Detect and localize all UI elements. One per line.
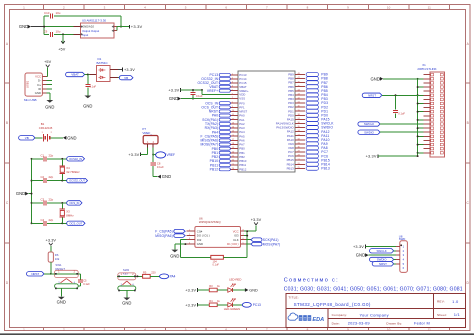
svg-text:Sheet:: Sheet: <box>437 313 447 317</box>
svg-text:8MHz: 8MHz <box>66 213 74 217</box>
svg-text:GND: GND <box>19 24 28 29</box>
svg-text:PB13: PB13 <box>287 166 294 170</box>
svg-text:GND: GND <box>35 91 41 95</box>
svg-text:C9: C9 <box>44 30 48 34</box>
svg-text:10k: 10k <box>55 257 60 261</box>
svg-text:C2: C2 <box>41 175 45 179</box>
svg-text:GND: GND <box>16 191 25 196</box>
svg-text:CLK: CLK <box>233 238 239 242</box>
svg-text:PA4: PA4 <box>170 275 176 279</box>
svg-text:C4: C4 <box>41 218 45 222</box>
svg-text:Company:: Company: <box>332 313 348 317</box>
svg-text:+3.3V: +3.3V <box>185 303 196 307</box>
svg-text:22p: 22p <box>49 197 54 201</box>
svg-text:+3.3V: +3.3V <box>124 68 135 72</box>
svg-text:VBAT: VBAT <box>71 73 79 77</box>
svg-text:GND: GND <box>122 301 131 306</box>
svg-text:10u: 10u <box>56 30 61 34</box>
svg-text:VCC: VCC <box>233 229 239 233</box>
svg-text:MOSI(PA7): MOSI(PA7) <box>263 242 281 246</box>
svg-text:GND: GND <box>356 253 365 258</box>
svg-text:C031; G030; G031; G041; G050;: C031; G030; G031; G041; G050; G051; G061… <box>284 286 463 292</box>
svg-text:CR1220-B: CR1220-B <box>39 126 53 130</box>
svg-text:U5 AMS1117-3.30: U5 AMS1117-3.30 <box>82 18 106 22</box>
svg-text:R5: R5 <box>143 270 147 274</box>
svg-text:B: B <box>467 121 469 125</box>
svg-text:+3.3V: +3.3V <box>131 24 143 29</box>
svg-text:0.1uF: 0.1uF <box>83 282 90 286</box>
svg-text:Output Output: Output Output <box>82 29 99 33</box>
svg-text:Input: Input <box>82 33 88 37</box>
svg-text:GND: GND <box>67 135 76 140</box>
svg-text:C10: C10 <box>44 11 50 15</box>
svg-text:0.1uF: 0.1uF <box>398 112 405 116</box>
svg-text:Date:: Date: <box>332 321 340 325</box>
svg-text:10: 10 <box>387 5 391 9</box>
svg-text:REV:: REV: <box>437 300 445 304</box>
svg-text:GND/ADJ: GND/ADJ <box>82 25 94 29</box>
svg-text:GND: GND <box>249 289 258 293</box>
svg-text:PB12: PB12 <box>210 167 219 171</box>
svg-text:+3.3V: +3.3V <box>46 238 57 242</box>
svg-text:+3.3V: +3.3V <box>251 218 262 222</box>
svg-text:Совместимо с:: Совместимо с: <box>284 278 339 284</box>
svg-text:R4: R4 <box>209 299 213 303</box>
svg-text:20PIN-STLINK: 20PIN-STLINK <box>417 67 436 71</box>
svg-text:GND: GND <box>83 103 92 108</box>
svg-text:F_CS(PA5): F_CS(PA5) <box>155 229 173 233</box>
svg-text:SWCLK: SWCLK <box>376 249 386 253</box>
svg-text:B: B <box>6 121 8 125</box>
svg-text:10u: 10u <box>56 11 61 15</box>
svg-text:22p: 22p <box>49 175 54 179</box>
svg-text:GND: GND <box>57 299 66 304</box>
svg-text:NRST: NRST <box>368 93 376 97</box>
svg-text:220: 220 <box>151 270 156 274</box>
svg-text:DI ( IO0 ): DI ( IO0 ) <box>227 242 239 246</box>
svg-text:OCS32_IN: OCS32_IN <box>69 157 82 161</box>
svg-text:W25Q32JVSSIQ: W25Q32JVSSIQ <box>199 220 221 224</box>
svg-text:VREF_: VREF_ <box>142 131 152 135</box>
svg-text:VREF: VREF <box>167 153 176 157</box>
svg-text:NRST: NRST <box>31 272 39 276</box>
svg-text:C1: C1 <box>41 153 45 157</box>
svg-text:+5V: +5V <box>58 47 66 51</box>
svg-text:VB: VB <box>124 76 128 80</box>
svg-text:2023-03-09: 2023-03-09 <box>348 321 370 326</box>
svg-text:SWCLK: SWCLK <box>364 122 374 126</box>
svg-text:GND: GND <box>370 76 379 81</box>
svg-text:Fedor M: Fedor M <box>414 321 430 326</box>
svg-text:+3.3V: +3.3V <box>366 155 377 159</box>
svg-text:VREF+: VREF+ <box>207 89 218 93</box>
svg-text:USB1: USB1 <box>25 80 29 88</box>
svg-text:+3.3V: +3.3V <box>128 153 139 157</box>
svg-text:STM32_LQFP48_board_(C0.G0): STM32_LQFP48_board_(C0.G0) <box>294 302 371 307</box>
svg-text:C5: C5 <box>83 278 87 282</box>
svg-text:GND: GND <box>169 96 178 101</box>
svg-text:PB13: PB13 <box>321 166 330 170</box>
svg-text:OCS_IN: OCS_IN <box>69 201 79 205</box>
svg-text:TITLE:: TITLE: <box>288 296 298 300</box>
svg-text:LED-RED: LED-RED <box>229 277 241 281</box>
svg-text:PB12: PB12 <box>239 167 246 171</box>
svg-text:NRST: NRST <box>379 262 387 266</box>
svg-text:VB: VB <box>25 136 29 140</box>
svg-text:GND: GND <box>45 105 54 110</box>
svg-text:1/1: 1/1 <box>454 312 461 317</box>
svg-text:GND: GND <box>170 253 179 258</box>
svg-text:OCS32_OUT: OCS32_OUT <box>69 179 85 183</box>
svg-text:C3: C3 <box>41 197 45 201</box>
svg-text:+3.3V: +3.3V <box>168 88 179 92</box>
svg-text:0.1uF: 0.1uF <box>196 94 203 98</box>
svg-text:0.1uF: 0.1uF <box>157 165 164 169</box>
svg-text:11: 11 <box>428 5 431 9</box>
svg-text:R3: R3 <box>209 284 213 288</box>
svg-text:IO2: IO2 <box>197 238 202 242</box>
svg-text:22p: 22p <box>49 153 54 157</box>
svg-text:CS#: CS# <box>197 229 203 233</box>
svg-text:KEY: KEY <box>123 272 129 276</box>
svg-text:EDA: EDA <box>312 317 324 323</box>
svg-text:BAT54C: BAT54C <box>97 61 109 65</box>
svg-text:GND: GND <box>197 242 203 246</box>
svg-text:0.1uF: 0.1uF <box>213 264 220 267</box>
svg-text:LED-GREEN: LED-GREEN <box>224 307 240 311</box>
svg-text:SCK(PA1): SCK(PA1) <box>263 238 279 242</box>
svg-text:Drawn By:: Drawn By: <box>386 322 402 326</box>
svg-text:Your Company: Your Company <box>360 313 389 318</box>
svg-text:GND: GND <box>162 174 171 179</box>
svg-text:Mini USB: Mini USB <box>24 98 37 102</box>
svg-text:+3.3V: +3.3V <box>353 245 364 249</box>
svg-text:1.0: 1.0 <box>452 299 459 304</box>
svg-text:MISO(PA6): MISO(PA6) <box>155 234 173 238</box>
svg-text:0.1uF: 0.1uF <box>90 85 97 89</box>
svg-text:SWDIO: SWDIO <box>364 130 375 134</box>
svg-text:+5V: +5V <box>44 60 52 64</box>
svg-text:VSS: VSS <box>239 97 245 101</box>
svg-text:PC13: PC13 <box>253 303 261 307</box>
svg-text:22p: 22p <box>49 218 54 222</box>
svg-text:+3.3V: +3.3V <box>185 288 196 292</box>
svg-text:32.768kHz: 32.768kHz <box>66 170 80 174</box>
svg-text:OCS_OUT: OCS_OUT <box>69 221 82 225</box>
